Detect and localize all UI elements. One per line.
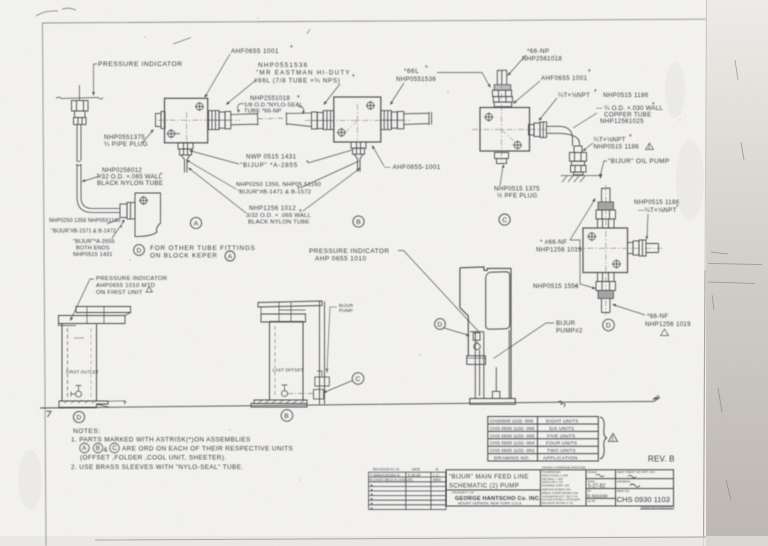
paper edge line right xyxy=(705,0,707,270)
bottom fitting of A xyxy=(178,143,193,173)
center lines of B xyxy=(305,104,410,140)
scan speckles xyxy=(129,17,680,520)
right hex stack of A xyxy=(209,111,231,130)
bottom paper line xyxy=(95,537,706,540)
right hex stack of B xyxy=(381,111,404,130)
ground break left xyxy=(47,411,52,417)
press B top beam xyxy=(258,301,322,307)
pump inner right line xyxy=(508,330,510,399)
top knurled nut of C xyxy=(494,85,511,91)
strip under title block xyxy=(640,508,674,510)
break line at indicator top xyxy=(56,97,103,99)
brace right of table xyxy=(600,417,607,459)
right hex fitting of C xyxy=(529,122,547,138)
hatch strip on right base xyxy=(258,400,304,403)
screw top-right of B xyxy=(366,101,375,110)
callout D (pump) xyxy=(435,319,446,330)
pump base xyxy=(470,399,516,405)
bottom plug fitting of C xyxy=(495,153,509,164)
leader 66L to assembly C xyxy=(437,73,490,87)
ground break right xyxy=(558,401,565,407)
screw top-right of A xyxy=(195,102,204,111)
pump column xyxy=(470,332,484,399)
drawing frame top border xyxy=(42,19,706,23)
hatch strip above base xyxy=(64,400,96,403)
tube A to B piece 1 xyxy=(231,113,285,126)
center lines of C xyxy=(472,70,552,160)
bottom fitting of B xyxy=(351,142,366,172)
ground end zigzag xyxy=(653,395,660,401)
callout C xyxy=(499,214,510,225)
pump pipe fittings xyxy=(315,377,330,386)
indicator stem xyxy=(78,85,80,100)
pump inner rounded panel xyxy=(486,272,510,330)
press D inner dashed line xyxy=(67,328,69,398)
bottom hex stack of D xyxy=(596,273,616,291)
right edge noise marks xyxy=(708,60,762,500)
stray tick marks xyxy=(173,29,310,44)
callout A xyxy=(190,217,201,228)
block C body xyxy=(480,108,530,152)
drawing frame left border xyxy=(43,23,47,546)
callout D (press) xyxy=(73,411,84,422)
screw top-left of C xyxy=(484,113,493,122)
bottom pipe of D xyxy=(602,299,611,313)
screw bottom-right of C xyxy=(513,141,522,150)
screw bottom-right of D xyxy=(612,260,621,269)
press D tower xyxy=(62,324,97,402)
callout D note: FOR OTHER TUBE FITTINGS xyxy=(134,245,145,256)
center lines of D xyxy=(576,185,662,315)
press D top beams xyxy=(76,307,131,313)
tube A to B piece 2 xyxy=(286,112,311,126)
dash line valve to pump pipe xyxy=(288,393,315,395)
press D valve xyxy=(76,391,82,397)
nylon tube down with elbow xyxy=(76,125,120,213)
pump upper small box xyxy=(473,333,480,340)
pump pipe vertical xyxy=(320,302,325,405)
leader from pressure indicator to pump unit xyxy=(398,251,479,333)
tube B to right end cap xyxy=(404,112,432,125)
press B base xyxy=(251,400,307,407)
top hex stack of D xyxy=(596,210,616,228)
press D base xyxy=(59,401,108,408)
right paper edge gray strip xyxy=(706,0,768,546)
ground line main xyxy=(40,401,654,408)
pump motor circle xyxy=(474,343,480,349)
bottom fitting under elbow xyxy=(570,146,587,175)
block D body xyxy=(583,228,628,273)
pump frame outline xyxy=(460,267,511,399)
screw bottom-left of B xyxy=(337,128,346,137)
mounting plate with screw xyxy=(135,193,161,237)
left hex stack of B xyxy=(312,111,334,130)
hex fitting top xyxy=(72,101,89,125)
top hex stack of C xyxy=(492,90,512,107)
press B tower xyxy=(270,322,304,401)
leader to pressure indicator xyxy=(94,64,98,93)
block B body xyxy=(334,97,381,142)
screw bottom-left of A xyxy=(167,129,180,138)
faint smudges xyxy=(18,62,704,510)
press D top small marks xyxy=(74,337,84,339)
copper tube elbow of C xyxy=(547,126,580,146)
callout D xyxy=(603,319,615,331)
warning triangle 1 xyxy=(609,434,618,442)
bottom edge shading xyxy=(0,536,768,546)
left pipe plug of block A xyxy=(156,112,166,129)
pump rod and bottom box xyxy=(495,367,497,391)
elbow end fitting xyxy=(120,203,135,220)
pump side bar xyxy=(467,356,486,365)
top knurled nut of D xyxy=(598,202,614,210)
callout B xyxy=(353,216,364,227)
top pipe of C xyxy=(497,70,506,85)
center lines of A xyxy=(158,112,240,143)
table grid xyxy=(488,417,599,462)
press B valve xyxy=(282,391,288,397)
screw top-left of D xyxy=(587,232,596,241)
top pipe of D xyxy=(602,188,611,202)
callout C (press) xyxy=(352,373,364,385)
block A body xyxy=(165,98,208,143)
right fitting of D xyxy=(628,240,659,256)
pump mounting hatch xyxy=(561,174,602,182)
callout B (press) xyxy=(281,410,293,422)
bottom knurled nut of D xyxy=(598,291,614,299)
note 1 line 2 with callout circles xyxy=(80,443,90,453)
base extension line with hook xyxy=(108,401,127,405)
corner scribble top-left xyxy=(36,8,76,16)
